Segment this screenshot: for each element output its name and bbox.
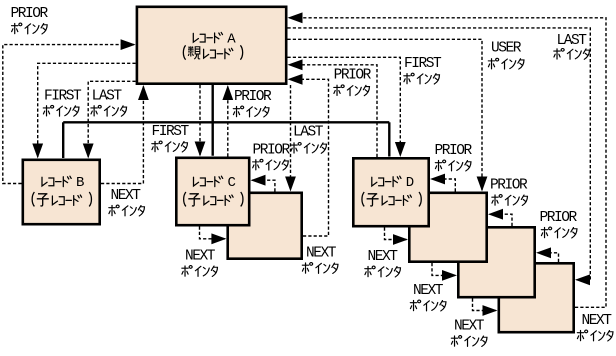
wire: USER pointer from A to D2 xyxy=(288,39,488,191)
svg-text:LAST: LAST xyxy=(557,33,588,49)
wire: PRIOR pointer from D2 to D xyxy=(430,174,455,192)
wire: PRIOR pointer from D to A xyxy=(288,59,378,157)
node: plain member box D4 xyxy=(499,263,574,332)
wire: PRIOR pointer from D4 to D3 xyxy=(536,247,559,262)
label LAST (A to B) xyxy=(91,88,127,116)
label LAST (A to D4) xyxy=(554,33,590,59)
wire: FIRST pointer from A to C xyxy=(195,85,206,157)
label NEXT (B) xyxy=(109,188,145,216)
label USER xyxy=(488,41,524,69)
svg-text:PRIOR: PRIOR xyxy=(540,210,578,226)
svg-text:PRIOR: PRIOR xyxy=(435,143,473,159)
label NEXT (C2) xyxy=(302,246,338,274)
node: plain member box D2 xyxy=(409,193,486,262)
label NEXT (D2) xyxy=(410,283,446,311)
svg-text:USER: USER xyxy=(491,41,522,57)
wire: PRIOR pointer from C2 to C xyxy=(251,175,275,192)
label PRIOR (D3) xyxy=(490,178,528,206)
svg-text:NEXT: NEXT xyxy=(185,249,216,265)
wire: NEXT pointer from D2 to D3 xyxy=(432,263,457,281)
svg-text:PRIOR: PRIOR xyxy=(334,67,372,83)
wire: PRIOR pointer from B to A xyxy=(3,39,136,183)
svg-text:NEXT: NEXT xyxy=(413,283,444,299)
wire: FIRST pointer from A to B xyxy=(32,63,135,158)
node: plain member box C2 (behind record C) xyxy=(228,193,302,259)
label NEXT (C) xyxy=(182,249,218,277)
svg-text:FIRST: FIRST xyxy=(44,88,82,104)
wire: PRIOR pointer from C to A xyxy=(222,85,233,157)
wire: NEXT pointer from C2 to A xyxy=(288,74,329,236)
svg-text:A: A xyxy=(227,31,236,47)
label PRIOR (D2) xyxy=(435,143,473,171)
svg-text:NEXT: NEXT xyxy=(111,188,142,204)
record A box (parent) xyxy=(137,7,286,84)
label NEXT (D) xyxy=(365,249,401,277)
label FIRST (A to C) xyxy=(152,124,190,152)
svg-text:LAST: LAST xyxy=(293,125,324,141)
label PRIOR (C2) xyxy=(253,143,291,171)
label PRIOR (C) xyxy=(233,89,272,117)
record A label レコードA（親レコード） xyxy=(183,31,242,59)
label PRIOR (B) xyxy=(11,6,49,34)
label FIRST (A to D) xyxy=(404,56,442,84)
node: plain member box D3 xyxy=(458,227,534,297)
label NEXT (D4) xyxy=(577,313,613,341)
record C box xyxy=(176,158,249,225)
svg-text:PRIOR: PRIOR xyxy=(490,178,528,194)
record D box xyxy=(353,158,428,226)
wire: LAST pointer from A to C2 xyxy=(285,85,296,192)
svg-text:NEXT: NEXT xyxy=(306,246,337,262)
wire: PRIOR pointer from D3 to D2 xyxy=(488,209,512,226)
label NEXT (D3) xyxy=(451,319,487,347)
svg-text:NEXT: NEXT xyxy=(582,313,613,329)
svg-text:B: B xyxy=(76,175,84,191)
wire: NEXT pointer from C to C2 xyxy=(200,227,227,245)
wire: solid rail from record A down to records B, C, D xyxy=(63,84,389,158)
svg-text:C: C xyxy=(228,175,236,191)
svg-text:FIRST: FIRST xyxy=(152,124,190,140)
record B box xyxy=(23,160,100,224)
record B label レコードB（子レコード） xyxy=(32,176,91,206)
svg-text:FIRST: FIRST xyxy=(404,56,442,72)
wire: LAST pointer from A to B xyxy=(83,81,136,158)
label LAST (A to C2) xyxy=(291,125,327,154)
record C label レコードC（子レコード） xyxy=(184,176,243,206)
label PRIOR (D) xyxy=(334,67,372,95)
svg-text:PRIOR: PRIOR xyxy=(11,6,49,22)
wire: NEXT pointer from D to D2 xyxy=(385,228,409,245)
svg-text:NEXT: NEXT xyxy=(368,249,399,265)
svg-text:D: D xyxy=(406,175,414,191)
svg-text:PRIOR: PRIOR xyxy=(253,143,291,159)
wire: NEXT pointer from D3 to D4 xyxy=(473,299,498,316)
svg-text:NEXT: NEXT xyxy=(454,319,485,335)
wire: NEXT pointer from D4 to A xyxy=(288,12,607,307)
record D label レコードD（子レコード） xyxy=(362,176,421,206)
svg-text:PRIOR: PRIOR xyxy=(234,89,272,105)
label FIRST (A to B) xyxy=(43,88,82,116)
wire: NEXT pointer from B to A xyxy=(101,85,149,184)
wire: LAST pointer from A to D4 xyxy=(288,28,591,285)
label PRIOR (D4) xyxy=(540,210,578,238)
svg-text:LAST: LAST xyxy=(92,88,123,104)
wire: FIRST pointer from A to D xyxy=(288,57,406,157)
